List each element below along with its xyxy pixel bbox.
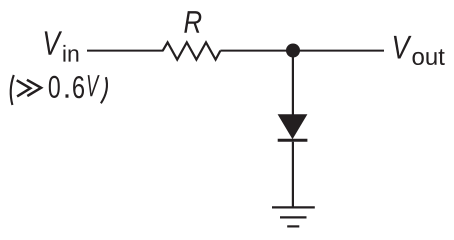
wire resistor to node: [220, 50, 293, 52]
node Vin label: [45, 31, 79, 61]
diode D1 anode triangle: [278, 114, 308, 139]
resistor R: [163, 42, 221, 59]
wire diode to ground: [292, 142, 294, 209]
node junction dot: [286, 44, 300, 58]
wire Vin to resistor: [87, 50, 164, 52]
wire node down to diode: [292, 51, 294, 115]
label R: [184, 11, 201, 33]
diode D1 cathode bar: [278, 139, 308, 142]
label (>>0.6V) condition: [11, 75, 107, 105]
ground: [272, 207, 315, 226]
wire node to Vout: [293, 50, 384, 52]
node Vout label: [394, 36, 445, 65]
